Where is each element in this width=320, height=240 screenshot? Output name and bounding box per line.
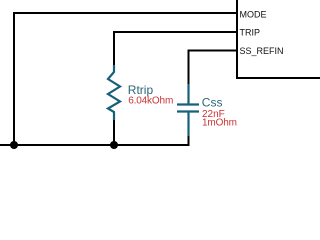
svg-text:SS_REFIN: SS_REFIN (240, 46, 284, 56)
svg-text:6.04kOhm: 6.04kOhm (128, 96, 173, 107)
svg-text:MODE: MODE (240, 9, 267, 19)
svg-text:1mOhm: 1mOhm (202, 118, 237, 129)
svg-text:Css: Css (202, 96, 223, 110)
svg-text:TRIP: TRIP (240, 27, 261, 37)
